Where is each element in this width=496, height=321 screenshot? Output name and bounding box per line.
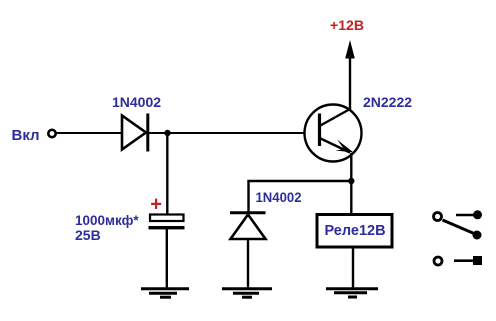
- ground (diode D2): [222, 289, 272, 298]
- svg-text:Реле12В: Реле12В: [325, 223, 386, 239]
- relay contact arm end dot: [473, 231, 482, 240]
- wire node B to diode D2: [249, 181, 352, 214]
- ground (capacitor): [141, 289, 189, 298]
- wire node A down to capacitor C1: [166, 133, 168, 215]
- +12V supply arrowhead: [345, 40, 355, 59]
- wire input to D1: [57, 132, 122, 134]
- relay contact NO terminal dot: [473, 210, 482, 219]
- transistor Q1 2N2222: [305, 105, 362, 162]
- svg-text:Вкл: Вкл: [12, 127, 40, 144]
- svg-text:+12В: +12В: [330, 17, 364, 33]
- relay K1 box: [317, 215, 392, 248]
- capacitor C1: [149, 215, 185, 230]
- svg-text:1000мкф*: 1000мкф*: [75, 213, 139, 228]
- relay contact common terminal: [434, 213, 442, 221]
- relay contact moving arm: [443, 220, 475, 234]
- svg-text:2N2222: 2N2222: [363, 94, 412, 110]
- relay contact lower stub wire: [454, 259, 474, 262]
- svg-text:1N4002: 1N4002: [112, 94, 161, 110]
- svg-text:25В: 25В: [75, 227, 101, 243]
- relay contact NO stub wire: [456, 214, 474, 217]
- wire collector to +12V: [349, 56, 351, 110]
- relay contact lower terminal: [434, 257, 442, 265]
- wire C1 to ground: [166, 229, 168, 289]
- wire relay to ground: [352, 248, 354, 289]
- wire D2 to ground: [247, 239, 249, 289]
- junction node B: [348, 178, 354, 184]
- ground (relay): [326, 289, 378, 297]
- svg-text:1N4002: 1N4002: [256, 189, 302, 205]
- relay contact lower terminal square: [473, 256, 482, 265]
- diode D2 1N4002 flyback: [230, 213, 266, 239]
- svg-text:+: +: [150, 194, 162, 216]
- junction node A: [164, 130, 170, 136]
- diode D1 1N4002: [122, 114, 148, 152]
- wire emitter down to relay: [350, 153, 352, 214]
- wire D1 to transistor base: [148, 132, 305, 134]
- input terminal: [48, 130, 55, 137]
